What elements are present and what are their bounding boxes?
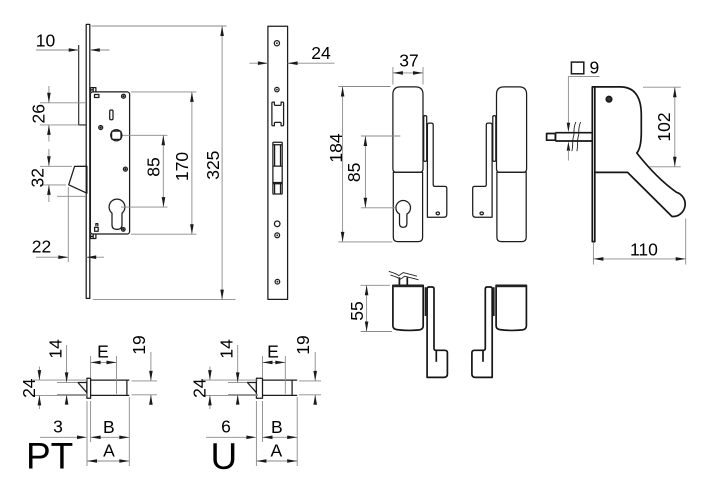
deadbolt cutout <box>273 142 282 194</box>
side strip <box>493 287 495 316</box>
svg-text:E: E <box>97 341 109 361</box>
screw hole bottom <box>275 279 280 284</box>
svg-text:6: 6 <box>221 416 231 436</box>
svg-text:26: 26 <box>29 104 49 123</box>
dim 110 <box>593 258 685 260</box>
PT ext lines 19 <box>132 381 158 395</box>
spindle end block <box>547 134 556 141</box>
svg-text:85: 85 <box>143 157 163 176</box>
PT ext lines E <box>91 356 117 394</box>
dim 10 <box>36 49 110 51</box>
U dim A <box>256 460 297 462</box>
svg-text:102: 102 <box>654 112 674 141</box>
latch spring slot <box>110 110 113 120</box>
PT dim 14 <box>66 345 68 403</box>
PT dim B <box>91 436 130 438</box>
U dim E <box>263 361 286 363</box>
grub screw <box>480 212 483 215</box>
square spindle shaft <box>555 133 592 141</box>
faceplate (front view) <box>268 26 288 299</box>
U wedge lip <box>247 383 256 393</box>
ext lines 110 <box>593 219 685 265</box>
dim 32 <box>48 149 50 202</box>
ext lines 325 <box>92 26 236 300</box>
ext lines 32 <box>40 166 86 196</box>
euro cylinder cutout <box>109 199 125 229</box>
svg-text:A: A <box>270 441 282 461</box>
screw middle <box>123 167 127 171</box>
svg-text:37: 37 <box>399 51 418 71</box>
U dim 19 <box>314 352 316 403</box>
PT ext lines 14 <box>57 382 88 394</box>
PT ext verticals A B <box>87 397 129 466</box>
svg-text:24: 24 <box>189 378 209 398</box>
faceplate (side view) <box>86 24 90 298</box>
U ext verticals A B <box>256 397 297 466</box>
ext lines 102 <box>643 87 681 167</box>
grip pad bottom view (left) <box>393 285 423 330</box>
ext lines 170 <box>131 92 197 234</box>
grip pad (inside view) <box>497 87 527 172</box>
svg-text:22: 22 <box>32 237 51 257</box>
dim 85 lock <box>162 135 164 207</box>
U dim B <box>263 436 298 438</box>
dim 170 <box>191 92 193 234</box>
dim 102 <box>674 87 676 167</box>
svg-text:110: 110 <box>630 239 658 259</box>
svg-text:85: 85 <box>344 163 364 182</box>
U ext lines 19 <box>299 381 321 395</box>
latch cutout <box>272 102 284 126</box>
escutcheon plate (outside view) <box>393 172 422 241</box>
svg-text:B: B <box>103 417 115 437</box>
strap inner edge <box>482 350 484 362</box>
dim 26 <box>48 86 50 142</box>
svg-text:14: 14 <box>45 339 65 359</box>
escutcheon plate (inside view) <box>497 172 526 241</box>
small square TL inside case <box>95 95 99 98</box>
small square BL inside case <box>95 224 99 232</box>
svg-text:55: 55 <box>347 301 367 320</box>
svg-text:24: 24 <box>19 378 39 398</box>
screw hole 2 <box>275 87 279 91</box>
svg-text:19: 19 <box>293 335 313 354</box>
svg-text:3: 3 <box>53 416 63 436</box>
U ext lines 14 <box>228 382 258 394</box>
svg-text:24: 24 <box>311 43 331 63</box>
mounting plate edge-on <box>592 87 595 242</box>
U dim 24 <box>209 367 211 410</box>
PT strike plate cross-section <box>87 378 91 398</box>
svg-text:325: 325 <box>203 151 223 180</box>
PT dim 19 <box>150 352 152 403</box>
ext lines 85 lock <box>121 135 168 207</box>
spindle stub lines <box>399 277 407 285</box>
pad cut edge thick bar <box>393 285 424 287</box>
dim 24 faceplate <box>250 62 335 64</box>
dim 85 handle <box>364 136 366 208</box>
pad cut edge thick bar <box>496 285 527 287</box>
svg-text:E: E <box>267 341 279 361</box>
screw hole top <box>274 41 279 46</box>
hook strap with foot (bottom view right) <box>472 287 492 377</box>
bottom fixing lug <box>91 234 96 238</box>
svg-text:10: 10 <box>36 30 56 50</box>
side strip <box>425 287 427 316</box>
leader line for square 9 <box>568 76 599 123</box>
PT dim E <box>91 361 117 363</box>
strap inner edge <box>435 350 437 362</box>
ext lines 55 <box>361 285 392 331</box>
U keep box <box>263 380 298 395</box>
svg-text:PT: PT <box>26 436 73 477</box>
square symbol <box>571 62 583 74</box>
grip pad (outside view) <box>393 87 423 172</box>
euro hole circle <box>274 221 280 227</box>
svg-text:19: 19 <box>129 335 149 354</box>
dim 22 <box>36 256 104 258</box>
lock case <box>90 92 129 234</box>
latch wedge bolt <box>69 166 87 193</box>
ext lines 85 handle <box>361 136 400 208</box>
handle body and lever <box>595 87 685 217</box>
PT dim 24 <box>38 367 40 410</box>
hook strap with foot <box>473 123 492 217</box>
screw left <box>99 126 103 130</box>
U ext lines 24 <box>203 380 258 395</box>
PT dim 3 <box>40 436 77 438</box>
U dim 14 <box>237 345 239 403</box>
svg-text:14: 14 <box>216 339 236 359</box>
screw dot <box>607 97 611 101</box>
U ext lines E <box>263 356 286 394</box>
svg-text:9: 9 <box>590 58 600 78</box>
svg-text:A: A <box>103 441 115 461</box>
grip pad bottom view (right) <box>496 285 526 330</box>
screw BR <box>122 228 126 232</box>
dim 325 <box>221 26 223 300</box>
hook strap with foot (bottom view left) <box>427 287 447 377</box>
svg-text:B: B <box>271 417 283 437</box>
break marks <box>389 271 417 276</box>
latch lever edge <box>424 116 427 162</box>
dim 37 <box>393 72 423 74</box>
spindle square 9mm <box>112 131 121 139</box>
ext lines 26 <box>40 103 86 125</box>
U dim 6 <box>206 436 247 438</box>
PT ext lines 24 <box>33 380 88 395</box>
PT keep box <box>91 380 130 395</box>
euro cylinder cutout <box>396 201 411 228</box>
dim 55 <box>366 285 368 331</box>
latch lever edge <box>493 116 496 162</box>
spindle follower circle <box>111 130 122 141</box>
break marks on spindle <box>572 122 576 151</box>
rod / top bolt edge <box>79 45 87 125</box>
ext line 22 <box>67 187 69 262</box>
hook strap with foot <box>427 123 446 217</box>
grub screw <box>436 212 439 215</box>
PT dim A <box>87 460 129 462</box>
dim 184 <box>342 87 344 242</box>
svg-text:32: 32 <box>27 168 47 187</box>
svg-text:U: U <box>211 436 238 477</box>
ext lines 37 <box>393 67 423 85</box>
U strike plate cross-section <box>256 378 262 398</box>
screw hole 3 <box>275 233 280 238</box>
svg-text:170: 170 <box>172 152 192 181</box>
screw TR <box>122 94 126 98</box>
svg-text:184: 184 <box>326 133 346 162</box>
ext lines 184 <box>338 87 392 242</box>
PT wedge lip <box>78 383 87 393</box>
top fixing lug <box>91 88 96 92</box>
